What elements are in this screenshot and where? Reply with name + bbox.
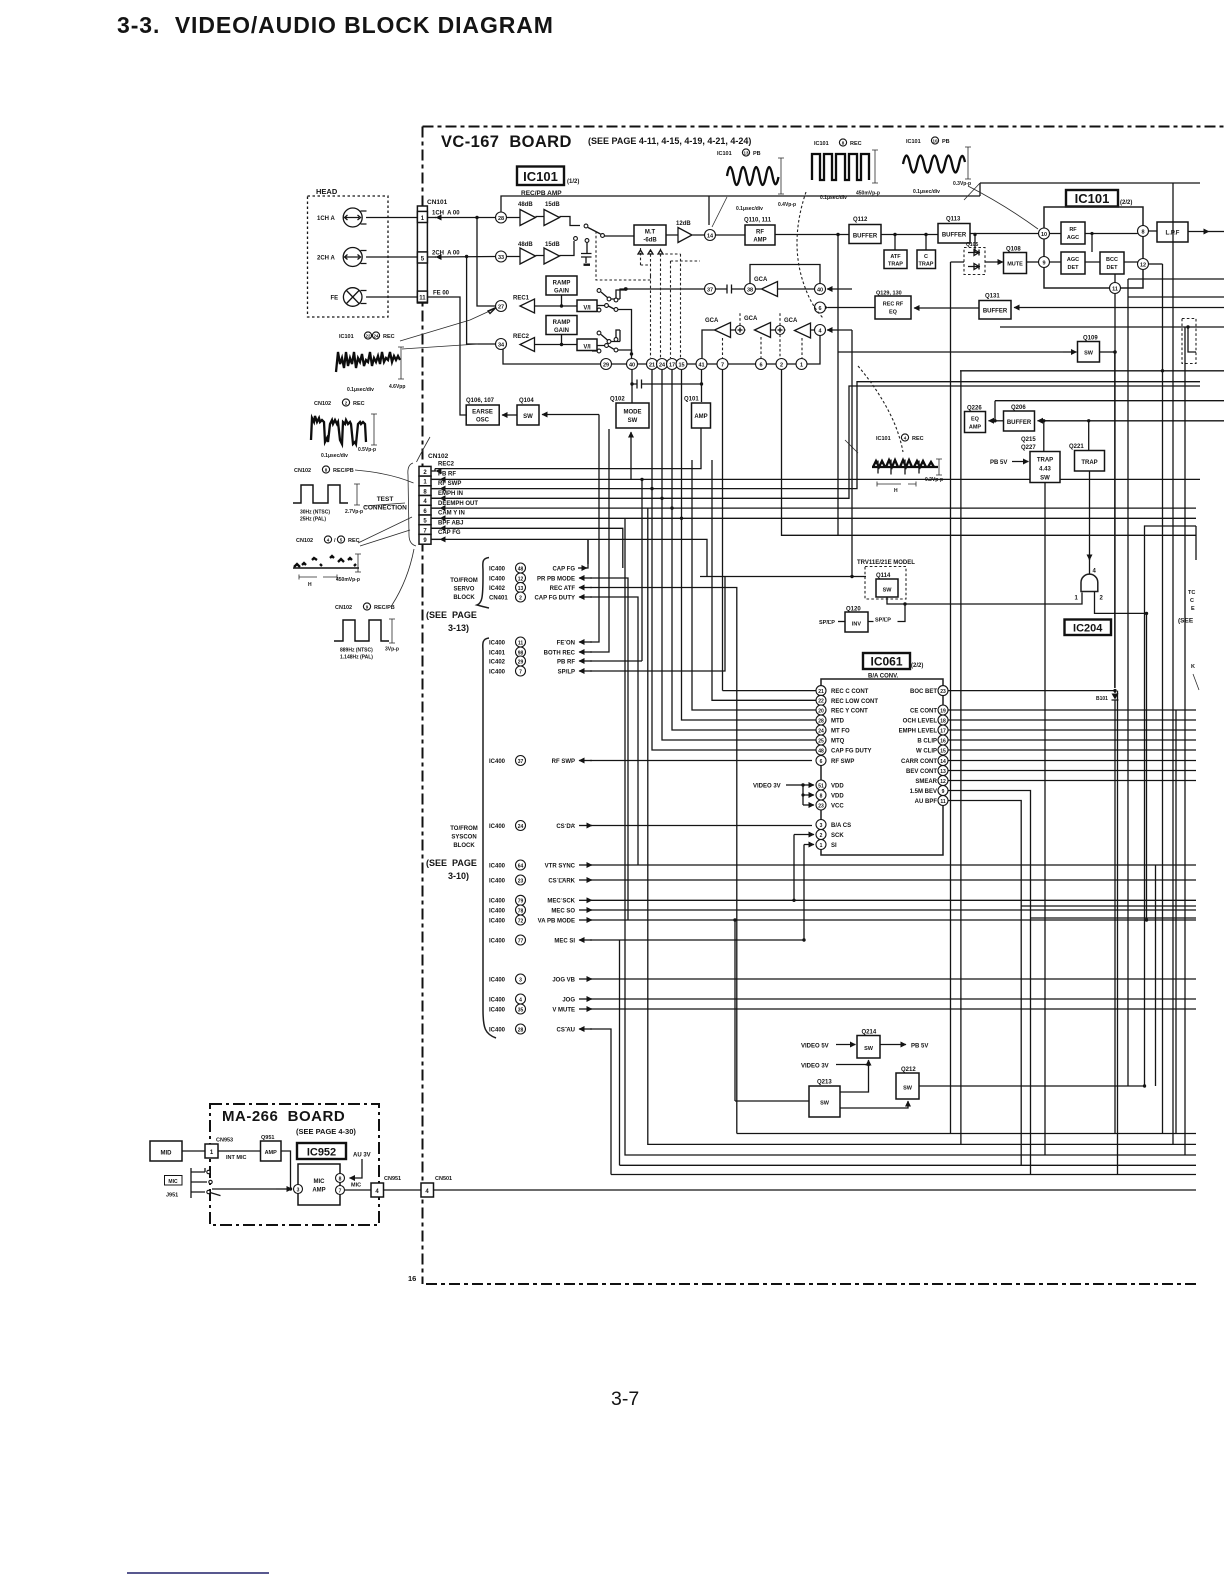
wire Q109 out to bus xyxy=(1100,351,1116,353)
svg-text:ATF: ATF xyxy=(890,254,901,260)
IC061 pin 25 xyxy=(816,735,826,745)
svg-text:K: K xyxy=(1191,664,1195,670)
svg-text:IC952: IC952 xyxy=(307,1147,336,1159)
svg-text:4.6Vpp: 4.6Vpp xyxy=(389,384,405,390)
mic jack label xyxy=(165,1176,183,1186)
svg-text:37: 37 xyxy=(518,759,524,765)
wire jack to mic amp xyxy=(212,1188,276,1190)
svg-text:V/I: V/I xyxy=(583,306,591,312)
svg-text:24: 24 xyxy=(659,363,666,369)
svg-text:14: 14 xyxy=(940,759,946,765)
IC101 2/2 outline xyxy=(1044,207,1143,288)
wire bus y400.7 xyxy=(995,401,1224,421)
filter L.P.F xyxy=(1157,222,1188,242)
wire SCK riser xyxy=(794,835,814,901)
svg-text:16: 16 xyxy=(408,1274,416,1283)
waveform REC square xyxy=(812,154,869,180)
svg-text:2: 2 xyxy=(519,595,522,601)
wire Q113 to IC101 pin10 xyxy=(970,233,1038,235)
svg-text:(1/2): (1/2) xyxy=(567,179,579,185)
diode B101 xyxy=(1113,689,1116,692)
svg-text:CE CONT: CE CONT xyxy=(910,709,937,715)
svg-text:15dB: 15dB xyxy=(545,242,560,248)
svg-text:RF SWP: RF SWP xyxy=(831,759,854,765)
svg-text:2CH A: 2CH A xyxy=(317,256,335,262)
svg-text:Q221: Q221 xyxy=(1069,444,1084,450)
svg-text:29: 29 xyxy=(603,363,609,369)
waveform burst xyxy=(872,466,938,468)
wire BPF ABJ xyxy=(431,528,623,568)
VC-167 board dashed outline xyxy=(423,127,1224,1285)
pin 21 xyxy=(647,359,658,370)
wire Q214 out PB 5V xyxy=(880,1044,906,1046)
svg-text:TRV11E/21E MODEL: TRV11E/21E MODEL xyxy=(857,560,915,566)
wire stubs right edge xyxy=(1128,279,1224,327)
svg-text:TEST: TEST xyxy=(377,496,394,503)
svg-text:Q206: Q206 xyxy=(1011,405,1026,411)
svg-text:RF: RF xyxy=(756,230,764,236)
bus y906 xyxy=(1021,905,1196,907)
junction 2CH xyxy=(465,255,468,258)
riser into AMP Q101 xyxy=(701,384,703,402)
pin 40 xyxy=(627,359,638,370)
wire headFE to CN101-11 xyxy=(366,296,417,298)
waveform IC101 8 REC label xyxy=(814,139,862,147)
leader arrows to CN102 xyxy=(355,470,414,483)
svg-text:IC400: IC400 xyxy=(489,938,506,944)
verticals right block xyxy=(838,183,1185,1175)
svg-text:IC400: IC400 xyxy=(489,879,506,885)
svg-text:Q102: Q102 xyxy=(610,397,625,403)
svg-text:6: 6 xyxy=(820,759,823,765)
svg-text:RF: RF xyxy=(1069,227,1077,233)
svg-text:11: 11 xyxy=(419,296,426,302)
svg-text:18: 18 xyxy=(940,718,946,724)
svg-text:IC400: IC400 xyxy=(489,899,506,905)
wire Q213 to Q214 riser xyxy=(840,1065,869,1093)
svg-text:MUTE: MUTE xyxy=(1007,262,1023,268)
svg-text:0.5Vp-p: 0.5Vp-p xyxy=(358,447,376,453)
svg-text:16: 16 xyxy=(940,738,946,744)
IC061 pin 12 xyxy=(938,776,948,786)
ramp gain 1 xyxy=(546,276,577,295)
svg-text:30Hz (NTSC): 30Hz (NTSC) xyxy=(300,510,330,516)
svg-text:BOTH REC: BOTH REC xyxy=(544,651,576,657)
wire head1 to CN101-1 xyxy=(366,217,417,219)
svg-text:PR PB MODE: PR PB MODE xyxy=(537,577,575,583)
wire into Q109 xyxy=(838,351,1063,353)
svg-text:IC101: IC101 xyxy=(876,436,891,442)
svg-text:REC Y CONT: REC Y CONT xyxy=(831,709,868,715)
waveform IC101 13 PB label xyxy=(717,149,761,157)
svg-text:(SEE PAGE: (SEE PAGE xyxy=(426,858,477,868)
wire REC RF EQ to pin6 xyxy=(828,307,875,309)
svg-text:3-10): 3-10) xyxy=(448,871,469,881)
svg-text:FE 00: FE 00 xyxy=(433,291,450,297)
corner box right xyxy=(1145,526,1197,980)
trap 4.43 SW xyxy=(1043,421,1045,452)
block AGC DET xyxy=(1061,252,1085,274)
wires inside IC101 2/2 xyxy=(1050,234,1138,283)
svg-text:REC2: REC2 xyxy=(513,334,530,340)
svg-text:23: 23 xyxy=(940,689,946,695)
IC204 label box xyxy=(1065,620,1112,636)
svg-text:2: 2 xyxy=(780,363,783,369)
svg-text:CN401: CN401 xyxy=(489,596,508,602)
diag mark xyxy=(845,440,858,453)
pin 6c xyxy=(756,359,767,370)
wire pin12 right and down xyxy=(1149,263,1163,265)
svg-text:6: 6 xyxy=(818,306,821,312)
svg-text:(SEE PAGE: (SEE PAGE xyxy=(426,610,477,620)
wire into pin4b xyxy=(827,329,852,331)
pin 7 xyxy=(717,359,728,370)
waveform IC101 10 PB label xyxy=(906,137,950,145)
pin 6b xyxy=(815,302,826,313)
dashed stub box right edge xyxy=(1182,319,1196,364)
svg-text:MTQ: MTQ xyxy=(831,739,845,745)
svg-text:Q113: Q113 xyxy=(946,217,961,223)
svg-text:TRAP: TRAP xyxy=(1081,460,1097,466)
svg-text:SMEAR: SMEAR xyxy=(915,779,937,785)
svg-text:Q101: Q101 xyxy=(684,397,699,403)
wire GCA1 output down to pin41 xyxy=(702,330,715,358)
svg-text:24: 24 xyxy=(373,334,379,339)
svg-text:C: C xyxy=(1190,598,1194,604)
leader from waveform to pin14 xyxy=(712,197,727,227)
svg-text:22: 22 xyxy=(365,334,371,339)
svg-text:OSC: OSC xyxy=(476,418,490,424)
svg-text:IC101: IC101 xyxy=(339,334,354,340)
svg-text:TRAP: TRAP xyxy=(919,262,934,268)
svg-text:7: 7 xyxy=(339,1188,342,1194)
svg-text:3-3. VIDEO/AUDIO BLOCK DIAGRA: 3-3. VIDEO/AUDIO BLOCK DIAGRAM xyxy=(117,12,554,38)
brace syscon group tall xyxy=(483,638,496,1038)
waveform CN102 9 REC/PB label xyxy=(335,603,395,611)
pin 17 xyxy=(667,359,678,370)
svg-text:TRAP: TRAP xyxy=(888,262,903,268)
svg-text:CN101: CN101 xyxy=(427,199,448,206)
IC061 pin 21 xyxy=(816,686,826,696)
capacitor between 37 and 38 xyxy=(716,285,745,294)
svg-text:IC400: IC400 xyxy=(489,997,506,1003)
svg-text:0.1μsec/div: 0.1μsec/div xyxy=(347,387,374,393)
svg-text:MEC SCK: MEC SCK xyxy=(547,899,575,905)
svg-text:12dB: 12dB xyxy=(676,221,691,227)
svg-text:3: 3 xyxy=(519,977,522,983)
svg-text:B/A CS: B/A CS xyxy=(831,823,851,829)
wire verticals right band extensions xyxy=(951,710,1177,1175)
svg-text:VDD: VDD xyxy=(831,784,844,790)
svg-text:CN102: CN102 xyxy=(335,605,352,611)
svg-text:CN102: CN102 xyxy=(296,538,313,544)
svg-text:REC: REC xyxy=(912,436,924,442)
svg-text:15: 15 xyxy=(940,748,946,754)
wire into pin40b from right xyxy=(827,288,852,290)
block H.T -6dB xyxy=(634,225,666,245)
svg-text:41: 41 xyxy=(698,363,704,369)
svg-text:48: 48 xyxy=(818,748,824,754)
svg-text:SW: SW xyxy=(1040,476,1050,482)
svg-text:Q226: Q226 xyxy=(967,406,982,412)
wire EMPH IN bus xyxy=(431,386,1200,498)
svg-text:CARR CONT: CARR CONT xyxy=(901,759,937,765)
svg-text:PB RF: PB RF xyxy=(557,660,575,666)
svg-text:SP/LP: SP/LP xyxy=(558,670,575,676)
IC061 pin 19 xyxy=(938,705,948,715)
vi converter 2 xyxy=(577,339,597,351)
svg-text:3Vp-p: 3Vp-p xyxy=(385,647,399,653)
svg-text:BLOCK: BLOCK xyxy=(453,843,475,849)
IC061 pin 18 xyxy=(938,715,948,725)
brace for CN102 xyxy=(408,463,416,546)
svg-text:14: 14 xyxy=(707,234,714,240)
waveform noisy square xyxy=(311,416,366,444)
svg-text:VA PB MODE: VA PB MODE xyxy=(538,918,575,924)
svg-text:REC: REC xyxy=(383,334,395,340)
svg-text:TC: TC xyxy=(1188,590,1195,596)
svg-text:0.1μsec/div: 0.1μsec/div xyxy=(736,206,763,212)
svg-text:BPF ABJ: BPF ABJ xyxy=(438,520,463,526)
wire CN101-1 to pin28 xyxy=(435,217,496,219)
wire into Q104 xyxy=(542,414,599,416)
svg-text:28: 28 xyxy=(498,216,504,222)
svg-text:13: 13 xyxy=(743,151,749,156)
svg-text:V MUTE: V MUTE xyxy=(552,1007,575,1013)
svg-text:Q227: Q227 xyxy=(1021,445,1036,451)
svg-text:8: 8 xyxy=(339,1176,342,1182)
IC061 pin 24 xyxy=(816,725,826,735)
svg-text:PB RF: PB RF xyxy=(438,472,456,478)
svg-text:MODE: MODE xyxy=(624,410,642,416)
svg-text:450mVp-p: 450mVp-p xyxy=(856,191,880,197)
junction on video line xyxy=(836,233,839,236)
svg-text:48dB: 48dB xyxy=(518,242,533,248)
svg-text:2CH A 00: 2CH A 00 xyxy=(432,251,460,257)
svg-text:VIDEO 3V: VIDEO 3V xyxy=(801,1064,829,1070)
svg-text:SW: SW xyxy=(523,414,533,420)
svg-text:17: 17 xyxy=(669,363,675,369)
wire right edge into Q131 xyxy=(1014,307,1224,309)
wire pin8 to LPF xyxy=(1149,230,1158,232)
svg-text:IC101: IC101 xyxy=(814,141,829,147)
svg-text:SCK: SCK xyxy=(831,833,844,839)
svg-text:1CH A: 1CH A xyxy=(317,216,335,222)
svg-text:FE: FE xyxy=(331,296,339,302)
staircase bus 4 xyxy=(620,1164,1197,1166)
wire CN951 to CN501 xyxy=(384,1189,422,1191)
svg-text:BUFFER: BUFFER xyxy=(983,309,1008,315)
svg-text:7: 7 xyxy=(721,363,724,369)
svg-text:4: 4 xyxy=(519,997,522,1003)
svg-text:TRAP: TRAP xyxy=(1037,458,1053,464)
svg-text:CAP FG DUTY: CAP FG DUTY xyxy=(534,596,575,602)
pin 38 xyxy=(745,284,756,295)
wire CAP FG xyxy=(431,539,707,576)
svg-text:/: / xyxy=(334,538,336,544)
svg-text:IC400: IC400 xyxy=(489,908,506,914)
MA-266 board dashed outline xyxy=(210,1104,379,1225)
svg-text:IC400: IC400 xyxy=(489,641,506,647)
svg-text:Q106, 107: Q106, 107 xyxy=(466,398,495,404)
mic amp pin 8 xyxy=(336,1174,345,1183)
svg-text:3-7: 3-7 xyxy=(611,1388,639,1410)
svg-text:C: C xyxy=(924,254,928,260)
IC061 pin 28 xyxy=(816,715,826,725)
svg-text:CN102: CN102 xyxy=(294,468,311,474)
svg-text:0.4Vp-p: 0.4Vp-p xyxy=(778,202,796,208)
IC061 pin 51 xyxy=(816,780,826,790)
IC061 pin 15 xyxy=(938,745,948,755)
pin 37 xyxy=(705,284,716,295)
svg-text:0.1μsec/div: 0.1μsec/div xyxy=(820,195,847,201)
wire pin14 to RF AMP xyxy=(716,234,746,236)
svg-text:GAIN: GAIN xyxy=(554,289,569,295)
wire head2 to CN101-5 xyxy=(366,256,417,258)
wire CN101-5 to pin33 xyxy=(435,256,496,259)
svg-text:BOC BET: BOC BET xyxy=(910,689,937,695)
svg-text:RF SWP: RF SWP xyxy=(552,759,575,765)
svg-text:11: 11 xyxy=(1112,287,1118,293)
svg-text:28: 28 xyxy=(818,718,824,724)
svg-text:8: 8 xyxy=(1141,230,1144,236)
IC952 label box xyxy=(297,1143,346,1159)
svg-text:SW: SW xyxy=(883,588,893,594)
mic MID box xyxy=(150,1141,182,1161)
svg-text:72: 72 xyxy=(518,918,524,924)
summing node 1 xyxy=(736,326,745,335)
svg-text:78: 78 xyxy=(518,908,524,914)
capacitor wire under row xyxy=(632,380,702,389)
svg-text:CN951: CN951 xyxy=(384,1176,401,1182)
svg-text:SW: SW xyxy=(628,418,638,424)
svg-text:REC: REC xyxy=(353,401,365,407)
junction 1CH xyxy=(475,216,478,219)
wire pin12 drop xyxy=(1162,264,1164,371)
svg-text:SP/LP: SP/LP xyxy=(875,618,891,624)
svg-text:PB 5V: PB 5V xyxy=(990,460,1007,466)
waveform IC101 22,24 REC label xyxy=(339,332,395,340)
svg-text:1CH A 00: 1CH A 00 xyxy=(432,211,460,217)
wire RF SWP bus xyxy=(431,382,1200,489)
trap C xyxy=(925,235,927,251)
svg-text:REC1: REC1 xyxy=(513,296,530,302)
pin 15 xyxy=(676,359,687,370)
vertical VA PB MODE to Q213 xyxy=(735,920,809,1101)
svg-text:79: 79 xyxy=(518,899,524,905)
svg-text:Q109: Q109 xyxy=(1083,336,1098,342)
svg-text:Q213: Q213 xyxy=(817,1080,832,1086)
svg-text:(2/2): (2/2) xyxy=(911,663,923,669)
svg-text:15dB: 15dB xyxy=(545,202,560,208)
pin 40b xyxy=(815,284,826,295)
svg-text:33: 33 xyxy=(498,255,504,261)
wire DEEMPH OUT bus xyxy=(431,507,1196,509)
svg-text:CAP FG: CAP FG xyxy=(438,530,461,536)
IC061 label box xyxy=(863,653,910,669)
pin 14 xyxy=(705,230,716,241)
svg-text:PB 5V: PB 5V xyxy=(911,1044,928,1050)
switch after V/I 1 xyxy=(597,290,632,354)
svg-text:Q131: Q131 xyxy=(985,294,1000,300)
svg-text:35: 35 xyxy=(518,1007,524,1013)
waveform IC101 4 REC label xyxy=(876,434,924,442)
staircase bus 3 xyxy=(625,518,1196,1155)
block RF AGC xyxy=(1061,222,1085,244)
svg-text:VCC: VCC xyxy=(831,804,844,810)
IC061 pin 6 xyxy=(816,756,826,766)
risers into pins from below xyxy=(632,370,702,519)
svg-text:DET: DET xyxy=(1068,265,1080,271)
svg-text:INV: INV xyxy=(852,622,862,628)
svg-text:40: 40 xyxy=(817,288,823,294)
svg-text:11: 11 xyxy=(518,640,524,646)
svg-text:IC204: IC204 xyxy=(1073,623,1103,635)
svg-text:2.7Vp-p: 2.7Vp-p xyxy=(345,509,363,515)
svg-text:25: 25 xyxy=(818,738,824,744)
svg-text:(SEE PAGE 4-11, 4-15, 4-19, 4-: (SEE PAGE 4-11, 4-15, 4-19, 4-21, 4-24) xyxy=(588,136,751,146)
wire pin7 to CN951 xyxy=(345,1189,372,1191)
wire SI riser xyxy=(804,845,814,941)
svg-text:4.43: 4.43 xyxy=(1039,467,1051,473)
svg-text:7: 7 xyxy=(519,669,522,675)
svg-text:13: 13 xyxy=(940,769,946,775)
svg-text:19: 19 xyxy=(940,708,946,714)
svg-text:34: 34 xyxy=(498,343,505,349)
vertical bus from video line x838 xyxy=(837,235,839,353)
svg-text:SERVO: SERVO xyxy=(454,587,475,593)
wire diodes to MUTE xyxy=(985,261,1003,263)
IC061 body xyxy=(821,679,943,855)
wire Q951 down to mic amp input xyxy=(281,1151,291,1189)
IC061 pin 14 xyxy=(938,756,948,766)
footer rule xyxy=(127,1572,269,1574)
svg-text:BEV CONT: BEV CONT xyxy=(906,769,937,775)
svg-text:SW: SW xyxy=(1084,351,1094,357)
gate output wire xyxy=(1095,592,1147,614)
svg-text:VIDEO 3V: VIDEO 3V xyxy=(753,784,781,790)
svg-text:REC/PB: REC/PB xyxy=(333,468,354,474)
svg-text:27: 27 xyxy=(498,305,504,311)
svg-text:IC400: IC400 xyxy=(489,918,506,924)
svg-text:AMP: AMP xyxy=(265,1150,278,1156)
waveform square 2 xyxy=(334,620,389,641)
IC061 right pin wires xyxy=(948,691,1196,918)
svg-text:FE ON: FE ON xyxy=(557,641,575,647)
svg-text:98: 98 xyxy=(518,650,524,656)
pin 28 xyxy=(496,212,507,223)
svg-text:EQ: EQ xyxy=(889,310,898,316)
IC061 pin 8 xyxy=(816,790,826,800)
svg-text:21: 21 xyxy=(818,689,824,695)
svg-text:0.1μsec/div: 0.1μsec/div xyxy=(321,453,348,459)
svg-text:9: 9 xyxy=(1042,261,1045,267)
svg-text:8: 8 xyxy=(820,793,823,799)
svg-text:12: 12 xyxy=(940,779,946,785)
svg-text:V/I: V/I xyxy=(583,345,591,351)
wire Q104 to OSC xyxy=(502,414,517,416)
svg-text:24: 24 xyxy=(518,824,524,830)
svg-text:0.3Vp-p: 0.3Vp-p xyxy=(953,181,971,187)
svg-text:IC101: IC101 xyxy=(906,139,921,145)
svg-text:51: 51 xyxy=(818,783,824,789)
pin 11 xyxy=(1110,283,1121,294)
svg-text:2: 2 xyxy=(820,833,823,839)
svg-text:MA-266 BOARD: MA-266 BOARD xyxy=(222,1108,345,1125)
svg-text:-6dB: -6dB xyxy=(643,238,657,244)
pin 27 xyxy=(496,301,507,312)
svg-text:0.1μsec/div: 0.1μsec/div xyxy=(913,189,940,195)
